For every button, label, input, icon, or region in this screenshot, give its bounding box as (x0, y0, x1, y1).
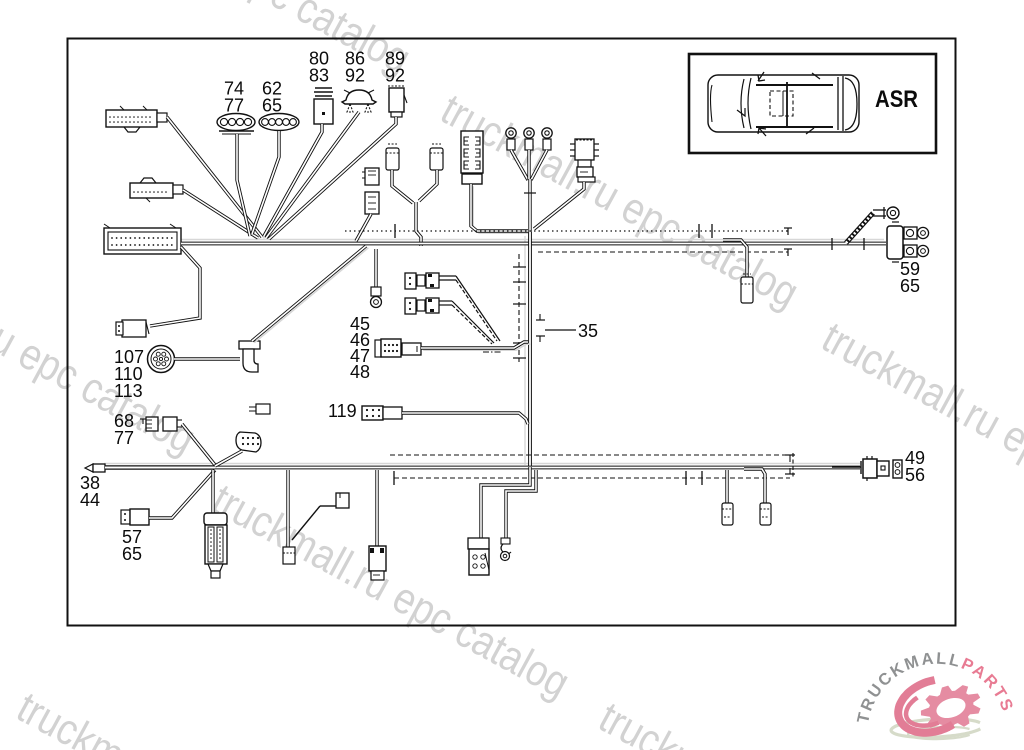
svg-text:44: 44 (80, 490, 100, 510)
branch wire B2 (375, 470, 378, 547)
truckmallparts logo (854, 649, 1017, 739)
svg-text:ASR: ASR (875, 86, 918, 113)
wire shadows (104, 236, 884, 465)
ASR box (689, 54, 936, 153)
wires row R2 (439, 300, 452, 302)
connector 49/56 (863, 456, 902, 481)
dashed companion upper (538, 251, 788, 253)
connector X2 (left hatched) (130, 178, 183, 202)
wire from X2 to junction (186, 192, 261, 240)
svg-text:48: 48 (350, 362, 370, 382)
terminal B3 (468, 538, 489, 575)
connector stack K1 (362, 168, 379, 214)
connector 107 (round) (148, 346, 175, 373)
wire from 86/92 to junction (266, 112, 359, 238)
shielded wire to ring terminal (846, 207, 899, 243)
connector 86/92 (boot) (342, 90, 376, 112)
connector X3 (large hatched, bus left end) (104, 224, 181, 254)
wire S1 to junction (215, 451, 242, 466)
branch wire B4 (506, 470, 536, 539)
svg-text:35: 35 (578, 321, 598, 341)
tick marks lower bus (394, 455, 861, 485)
branch wire B5 (725, 470, 728, 504)
connector 57/65 (121, 509, 149, 525)
wire 107 to elbow (174, 357, 240, 360)
vertical trunk (528, 232, 532, 467)
plug above B1 (336, 493, 349, 508)
small plug P1 (249, 404, 270, 414)
wire 45-48 to trunk (423, 344, 530, 350)
terminal B1 (283, 547, 295, 564)
wire from K1 to bus (356, 214, 371, 241)
wire from 80/83 to junction (264, 124, 322, 236)
ring terminals trio (506, 128, 552, 150)
connector 119 (362, 406, 402, 420)
dotted companion upper (345, 230, 788, 232)
wire elbow up to bus (254, 248, 368, 343)
connector 59/65 block (887, 222, 929, 262)
terminal B2 (369, 546, 386, 580)
branch wire B6 (744, 469, 765, 504)
arrow terminal 38/44 (85, 464, 105, 472)
upper main bus (181, 242, 886, 246)
connector 80/83 (314, 88, 333, 124)
svg-text:92: 92 (345, 66, 365, 86)
svg-text:77: 77 (114, 428, 134, 448)
terminal pair Y fork (386, 144, 443, 170)
connector row R1 (405, 273, 439, 289)
svg-text:65: 65 (122, 544, 142, 564)
connector 89/92 (388, 86, 407, 117)
connector 45-48 (375, 339, 421, 357)
comb connector below junction (211, 470, 214, 514)
svg-text:83: 83 (309, 66, 329, 86)
wire 57/65 to junction (149, 470, 215, 518)
bolt terminal below bus (374, 249, 377, 288)
dashed companions lower (390, 454, 790, 456)
terminal B4 hook (501, 538, 512, 561)
tick marks trunk (513, 267, 545, 358)
connector M1 (116, 320, 149, 337)
drawing frame border (68, 39, 956, 626)
terminal B6 (760, 503, 771, 525)
branch wire B3 from trunk (481, 467, 530, 538)
elbow boot (239, 341, 260, 372)
terminal B5 (722, 503, 733, 525)
dashed companion trunk (518, 254, 520, 362)
wires Y fork to bus (392, 170, 413, 203)
connector 68/77 (140, 417, 182, 431)
tick marks upper bus (395, 224, 864, 256)
svg-text:65: 65 (262, 96, 282, 116)
truck top view (708, 72, 859, 136)
wire 119 to trunk (402, 413, 528, 424)
wire from 74/77 to junction (237, 134, 250, 236)
wire from 62/65 to junction (252, 131, 279, 234)
connector E-comb U1 (461, 131, 483, 184)
dotted connector S1 (236, 432, 261, 452)
wire B1 to plug (292, 506, 320, 540)
wire 68/77 to junction (182, 424, 215, 465)
wire from X1 to junction (170, 119, 265, 239)
wire stub to 49/56 (832, 466, 861, 468)
wire from U1 to trunk junction (473, 186, 530, 233)
svg-text:119: 119 (328, 401, 357, 421)
svg-text:56: 56 (905, 465, 925, 485)
wire 38/44 along bus (105, 465, 215, 470)
wire X3 to down connector (150, 247, 200, 326)
wire from L1 to trunk junction (534, 182, 584, 229)
svg-text:113: 113 (114, 381, 143, 401)
svg-text:92: 92 (385, 66, 405, 86)
connector row R2 (405, 298, 439, 314)
lower main bus (104, 466, 860, 470)
connector X1 (top left hatched) (106, 106, 167, 132)
label 35 leader (545, 329, 576, 331)
connector 62/65 (oval multi-pin) (259, 114, 299, 131)
wires row R1 (439, 275, 456, 277)
wires ring trio merge (511, 150, 528, 180)
connector 74/77 (oval multi-pin) (217, 114, 255, 135)
dashed terminal below bus right (723, 240, 747, 278)
svg-text:77: 77 (224, 96, 244, 116)
branch wire B1 (286, 470, 289, 547)
svg-text:65: 65 (900, 276, 920, 296)
connector lamp holder L1 (570, 139, 599, 182)
wire from 89/92 to junction (269, 117, 396, 239)
